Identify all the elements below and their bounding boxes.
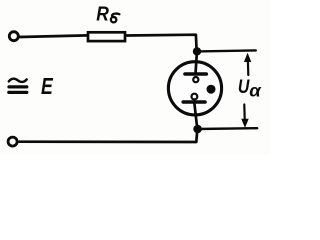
cathode ring: [192, 94, 198, 100]
junction: bottom node (cathode net): [194, 125, 202, 133]
anode electrode bar: [185, 72, 206, 76]
cathode lead (pin to bottom node): [194, 104, 197, 129]
arrow down (Ua measurement, lower): [241, 105, 249, 128]
svg-text:E: E: [41, 73, 53, 99]
arrow up (Ua measurement, upper): [244, 53, 251, 75]
label Rб subscript (ballast): [111, 14, 120, 23]
terminal (source -) bottom-left: [8, 137, 17, 146]
junction: top node (anode net): [193, 48, 200, 55]
anode lead (pin to top node): [196, 52, 197, 72]
wire: resistor to top node: [127, 35, 197, 51]
terminal (source +) top-left: [9, 32, 18, 41]
label E (EMF of source): [41, 73, 53, 99]
label: DC source symbol (tilde over equals): [9, 79, 27, 93]
wire: top-left terminal to resistor: [20, 35, 88, 37]
wire: bottom node down and left to bottom terminal: [19, 130, 197, 143]
label Ua (voltage across tube): [238, 77, 262, 101]
resistor Rб body: [88, 32, 125, 41]
label Rб (value label of resistor): [96, 2, 109, 25]
tube V1 envelope (gas-discharge stabilitron): [168, 62, 221, 115]
svg-text:R: R: [96, 2, 109, 25]
gas-filled indicator dot: [207, 85, 216, 94]
anode ring: [193, 77, 198, 82]
wire: top node to Ua upper measurement point: [197, 50, 256, 51]
svg-text:α: α: [249, 80, 261, 100]
wire: bottom node to Ua lower measurement point: [198, 127, 258, 130]
cathode electrode bar: [183, 100, 205, 104]
